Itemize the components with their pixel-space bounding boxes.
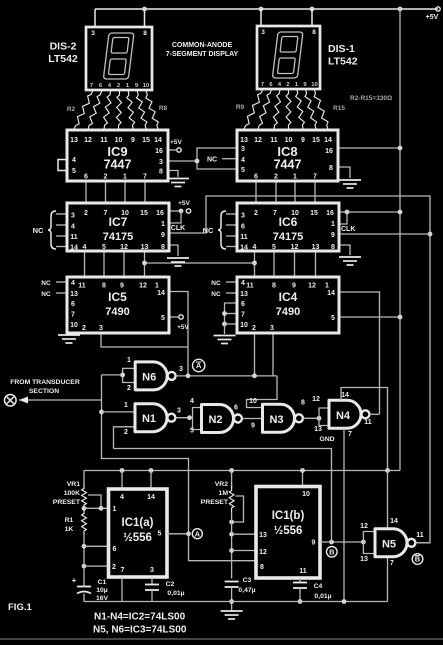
wire IC8 pin6 to IC6 pin2: [255, 181, 257, 203]
node: [229, 520, 234, 525]
svg-text:N4: N4: [336, 410, 351, 422]
svg-text:CLK: CLK: [341, 226, 355, 233]
wire N4 output: [369, 413, 379, 415]
svg-text:10: 10: [70, 322, 78, 329]
wire NC stub IC5 pin13: [56, 292, 67, 294]
svg-text:6: 6: [71, 301, 75, 308]
node: [298, 599, 303, 604]
wire DIS-1 pin8 to rail: [311, 9, 313, 26]
svg-text:FROM TRANSDUCER: FROM TRANSDUCER: [10, 379, 80, 386]
wire IC4 pins 6,7,10 tie: [225, 303, 238, 324]
svg-text:GND: GND: [319, 436, 334, 443]
svg-text:14: 14: [157, 290, 165, 297]
wire IC8 pin1 to IC6 pin10: [294, 181, 296, 203]
svg-text:NC: NC: [33, 226, 44, 235]
svg-text:C4: C4: [314, 583, 323, 590]
svg-text:13: 13: [70, 291, 78, 298]
NAND gate N4: [329, 400, 369, 428]
ground IC7: [167, 258, 189, 266]
IC1a pin4 riser: [121, 471, 123, 490]
svg-text:8: 8: [329, 165, 333, 172]
wire R1 to C1: [83, 535, 85, 586]
wire N5 pin7: [387, 557, 389, 602]
svg-text:14: 14: [341, 392, 349, 399]
svg-text:2: 2: [254, 210, 258, 217]
svg-text:11: 11: [70, 234, 78, 241]
svg-text:CLK: CLK: [171, 225, 185, 232]
svg-text:3: 3: [159, 159, 163, 166]
svg-text:2: 2: [274, 174, 278, 181]
wire IC6 pin4 to IC4 pin11: [254, 251, 256, 277]
node N1 pin1 tee: [99, 410, 104, 415]
wire NC stub IC5 pin4: [56, 281, 67, 283]
wire IC9 pin3 to IC8 bracket: [169, 160, 197, 162]
svg-text:14: 14: [390, 518, 398, 525]
circled B-bar: [412, 554, 423, 565]
wire IC4 pin14 from N4 output: [339, 292, 380, 414]
svg-text:14: 14: [324, 137, 332, 144]
wire IC5 pins 6,7,10 tie: [67, 303, 69, 324]
svg-text:7: 7: [121, 567, 125, 574]
NAND gate N5: [375, 529, 415, 557]
svg-text:8: 8: [301, 400, 305, 407]
wire IC7 pin4 to IC5 pin11: [84, 251, 86, 277]
brace IC6 NC: [218, 211, 226, 249]
svg-text:PRESET: PRESET: [201, 499, 229, 506]
svg-text:IC1(b): IC1(b): [272, 510, 305, 522]
svg-text:16: 16: [156, 210, 164, 217]
wire IC7 pin12 to IC5 pin9: [123, 251, 125, 277]
svg-text:13: 13: [240, 291, 248, 298]
node CLK at IC6 pin9: [428, 232, 433, 237]
svg-text:6: 6: [84, 174, 88, 181]
wire IC8 pin8 to ground: [338, 167, 350, 178]
svg-text:R2-R15=330Ω: R2-R15=330Ω: [350, 95, 392, 102]
wire IC1a pin5 output A: [167, 533, 189, 535]
svg-text:3: 3: [241, 146, 245, 153]
wire N6 output / A-bar net: [176, 375, 277, 377]
svg-text:N5, N6=IC3=74LS00: N5, N6=IC3=74LS00: [93, 625, 187, 636]
wire IC9 pin7 to IC7 pin15: [144, 181, 146, 203]
wire +5V bottom rail: [84, 470, 400, 472]
wire N5 input bracket: [363, 532, 375, 554]
svg-text:3: 3: [179, 366, 183, 373]
wire IC7 pin16 to pin1 jog: [169, 211, 181, 223]
svg-text:9: 9: [120, 283, 124, 290]
svg-text:LT542: LT542: [328, 56, 358, 68]
svg-text:1: 1: [325, 283, 329, 290]
svg-text:14: 14: [147, 494, 155, 501]
svg-text:C3: C3: [243, 577, 252, 584]
svg-text:C1: C1: [98, 579, 107, 586]
svg-text:5: 5: [72, 168, 76, 175]
wire: +5V bus down right side: [399, 9, 401, 471]
svg-text:4: 4: [71, 280, 75, 287]
node pin12: [229, 548, 234, 553]
svg-text:13: 13: [70, 137, 78, 144]
svg-text:IC5: IC5: [108, 290, 127, 304]
wire VR2 top: [231, 471, 233, 489]
svg-text:12: 12: [308, 283, 316, 290]
NAND gate N2: [202, 405, 242, 433]
wire IC9 pin1 to IC7 pin10: [124, 181, 126, 203]
wire IC7 pin8 to ground: [169, 245, 178, 256]
node IC5 feed: [186, 373, 191, 378]
wire C4 to ground rail: [299, 588, 301, 602]
capacitor C2: [145, 584, 159, 586]
svg-text:11: 11: [100, 137, 108, 144]
node N6 input: [120, 373, 125, 378]
svg-text:+5V: +5V: [170, 139, 182, 146]
wire IC6 pin5 to IC4 pin8: [273, 251, 275, 277]
node junction: [142, 261, 147, 266]
svg-text:COMMON-ANODE: COMMON-ANODE: [172, 42, 233, 49]
svg-text:IC1(a): IC1(a): [122, 517, 154, 529]
svg-text:3: 3: [71, 213, 75, 220]
svg-text:N5: N5: [382, 538, 396, 550]
wire IC1b pin9 output B: [320, 541, 363, 543]
svg-text:16: 16: [155, 148, 163, 155]
wire IC9 pin6 to IC7 pin2: [85, 181, 87, 203]
node: [186, 531, 191, 536]
svg-text:13: 13: [312, 244, 320, 251]
IC1(a) half 556: [109, 489, 168, 577]
svg-text:IC4: IC4: [279, 290, 298, 304]
svg-text:+5V: +5V: [426, 14, 439, 21]
resistor R2: [74, 91, 93, 130]
svg-text:8: 8: [161, 244, 165, 251]
wire C3 to ground: [231, 587, 233, 610]
wire IC6 pin16 to +5V bus: [339, 211, 400, 213]
svg-text:8: 8: [102, 283, 106, 290]
resistor R3: [88, 91, 102, 130]
svg-text:10: 10: [249, 398, 257, 405]
svg-text:NC: NC: [41, 291, 51, 298]
svg-text:13: 13: [141, 244, 149, 251]
ground IC5: [58, 335, 80, 343]
resistor R5: [116, 91, 121, 130]
resistor R7: [136, 91, 147, 130]
svg-text:3: 3: [150, 567, 154, 574]
svg-text:7: 7: [241, 312, 245, 319]
node pin13: [229, 532, 234, 537]
wire N2 out to N3: [242, 418, 263, 420]
svg-text:N3: N3: [269, 414, 283, 426]
+5V terminal IC5: [179, 315, 183, 319]
X input terminal: [5, 395, 17, 407]
svg-text:7: 7: [313, 174, 317, 181]
ground IC4: [214, 336, 236, 344]
svg-text:5: 5: [241, 167, 245, 174]
wire A-bar to N3 pin10: [247, 376, 278, 408]
wire IC7 pin16 to +5V: [169, 210, 181, 212]
svg-text:+5V: +5V: [177, 324, 189, 331]
svg-text:11: 11: [240, 234, 248, 241]
wire cross link QA row: [145, 262, 255, 264]
svg-text:2: 2: [252, 325, 256, 332]
svg-text:8: 8: [312, 29, 316, 36]
svg-text:C2: C2: [166, 581, 175, 588]
node: [222, 311, 227, 316]
svg-text:10: 10: [311, 82, 317, 88]
NAND gate N6: [135, 362, 175, 390]
svg-text:6: 6: [254, 174, 258, 181]
wire to IC1a pin6: [84, 545, 109, 547]
svg-text:74175: 74175: [273, 231, 304, 243]
wire VR1 wiper loop: [88, 495, 101, 508]
brace IC7 NC: [48, 211, 56, 249]
svg-text:16: 16: [325, 148, 333, 155]
svg-text:9: 9: [331, 232, 335, 239]
wire IC7 pin13 to IC5 pin12: [144, 251, 146, 277]
IC9 7447: [67, 130, 168, 181]
wire IC8 pin16 to +5V bus: [338, 147, 400, 149]
ground rail bottom: [84, 601, 388, 603]
svg-text:15: 15: [310, 210, 318, 217]
svg-text:4: 4: [72, 157, 76, 164]
svg-text:NC: NC: [211, 291, 221, 298]
svg-text:9: 9: [131, 137, 135, 144]
wire N1 out: [175, 417, 192, 419]
svg-text:15: 15: [312, 137, 320, 144]
wire IC5 pin14 feed: [169, 292, 188, 376]
svg-text:11: 11: [270, 137, 278, 144]
wire to N6 inputs: [102, 374, 123, 376]
svg-text:VR2: VR2: [215, 481, 228, 488]
svg-text:10: 10: [115, 137, 123, 144]
svg-text:6: 6: [234, 405, 238, 412]
svg-text:16: 16: [326, 210, 334, 217]
IC1(b) half 556: [256, 487, 320, 579]
svg-text:11: 11: [416, 532, 424, 539]
wire N5 output: [415, 542, 429, 544]
svg-text:7490: 7490: [105, 306, 129, 318]
svg-text:+5V: +5V: [178, 200, 190, 207]
wire N1 pin2 entry: [114, 427, 136, 449]
wire IC4 pin2 down: [254, 333, 256, 376]
resistor R8: [146, 91, 159, 130]
svg-text:R15: R15: [333, 105, 345, 112]
svg-text:7: 7: [71, 312, 75, 319]
svg-text:R2: R2: [67, 106, 76, 113]
wire tie to ground: [68, 324, 70, 334]
resistor R15: [314, 89, 328, 129]
svg-text:6: 6: [241, 224, 245, 231]
wire to IC1b pin12: [232, 550, 256, 552]
wire IC4 pin3 down: [272, 333, 274, 376]
wire DIS-2 pin8 to rail: [144, 9, 146, 27]
svg-text:N2: N2: [208, 414, 222, 426]
+5V terminal: [436, 7, 440, 11]
wire IC9 pins4-5 loop: [58, 160, 67, 171]
+5V terminal IC7: [186, 209, 190, 213]
svg-text:7490: 7490: [276, 306, 300, 318]
node N4 pin7 join: [342, 599, 347, 604]
wire rail end to VR1: [83, 471, 85, 485]
display DIS-2: [86, 27, 152, 90]
node pin2 tee: [82, 564, 87, 569]
svg-text:8: 8: [260, 564, 264, 571]
circled A: [192, 529, 202, 539]
svg-text:14: 14: [70, 245, 78, 252]
svg-text:15: 15: [142, 137, 150, 144]
svg-text:LT542: LT542: [48, 53, 78, 65]
svg-text:8: 8: [143, 30, 147, 37]
svg-text:5: 5: [272, 244, 276, 251]
node: [82, 506, 87, 511]
svg-text:3: 3: [91, 30, 95, 37]
wire C2 to ground rail: [151, 590, 153, 602]
svg-text:SECTION: SECTION: [29, 388, 59, 395]
wire NC stub IC4 pin4: [226, 281, 237, 283]
wire DIS-1 pin3 to rail: [260, 9, 262, 26]
svg-text:14: 14: [154, 137, 162, 144]
svg-text:10µ: 10µ: [96, 587, 108, 594]
svg-text:13: 13: [240, 137, 248, 144]
svg-text:7: 7: [273, 210, 277, 217]
ground IC8: [339, 180, 361, 188]
wire N4 pin14 to +5V rail: [341, 388, 388, 471]
svg-text:9: 9: [292, 283, 296, 290]
svg-text:FIG.1: FIG.1: [8, 602, 32, 613]
svg-text:NC: NC: [211, 280, 221, 287]
svg-text:12: 12: [312, 396, 320, 403]
svg-text:NC: NC: [207, 157, 217, 164]
display DIS-1: [257, 26, 320, 89]
svg-text:12: 12: [139, 283, 147, 290]
IC1a pin14 riser: [150, 471, 152, 490]
ground IC9: [167, 179, 189, 187]
svg-text:3: 3: [177, 408, 181, 415]
wire IC9 pin8 to ground: [169, 171, 178, 178]
svg-text:10: 10: [302, 491, 310, 498]
svg-text:7: 7: [90, 83, 93, 89]
svg-text:5: 5: [158, 531, 162, 538]
svg-text:1: 1: [331, 221, 335, 228]
svg-text:4: 4: [83, 244, 87, 251]
wire IC5 pin3 jog: [101, 333, 188, 347]
svg-text:2: 2: [127, 385, 131, 392]
svg-text:3: 3: [261, 29, 265, 36]
wire transducer input: [19, 399, 102, 401]
node: [187, 415, 192, 420]
wire N1 pin1: [102, 411, 136, 413]
resistor R14: [305, 89, 317, 129]
IC8 7447: [237, 130, 338, 181]
svg-text:IC6: IC6: [279, 215, 298, 229]
wire transducer riser: [102, 375, 189, 561]
svg-text:2: 2: [124, 429, 128, 436]
wire N4 input bracket: [319, 408, 329, 426]
svg-text:½556: ½556: [123, 532, 152, 544]
ground C3: [221, 611, 243, 619]
ground IC6: [339, 257, 361, 265]
svg-text:14: 14: [240, 245, 248, 252]
resistor R12: [286, 89, 291, 129]
svg-text:11: 11: [246, 283, 254, 290]
svg-text:NC: NC: [203, 226, 214, 235]
svg-text:DIS-2: DIS-2: [50, 41, 77, 53]
svg-text:R9: R9: [236, 104, 245, 111]
svg-text:5: 5: [331, 315, 335, 322]
node: [179, 209, 184, 214]
resistor R1: [82, 509, 87, 535]
svg-text:100K: 100K: [64, 490, 80, 497]
svg-text:9: 9: [161, 232, 165, 239]
svg-text:2: 2: [104, 174, 108, 181]
svg-text:3: 3: [241, 213, 245, 220]
circled B: [327, 547, 338, 558]
wire IC1a pin7 to ground: [121, 577, 123, 602]
IC7 74175: [67, 203, 169, 251]
wire IC6 pin13 to IC4 pin12: [315, 251, 317, 277]
svg-text:10: 10: [143, 83, 149, 89]
svg-text:5: 5: [190, 428, 194, 435]
svg-text:6: 6: [113, 546, 117, 553]
svg-text:2: 2: [84, 210, 88, 217]
node: rail junction dots: [142, 7, 147, 12]
svg-text:11: 11: [299, 568, 307, 575]
node: [398, 315, 403, 320]
svg-text:10: 10: [121, 210, 129, 217]
wire IC9 pin16 to +5V: [169, 149, 176, 151]
svg-text:R1: R1: [65, 517, 74, 524]
svg-text:1: 1: [124, 402, 128, 409]
svg-text:6: 6: [241, 301, 245, 308]
svg-text:14: 14: [327, 290, 335, 297]
svg-text:8: 8: [159, 169, 163, 176]
svg-text:N1: N1: [142, 413, 156, 425]
svg-text:B: B: [329, 548, 335, 557]
node IC4 pin2: [252, 373, 257, 378]
wire IC8 pin7 to IC6 pin15: [314, 181, 316, 203]
IC5 7490: [67, 277, 169, 333]
wire IC1a pin8 trigger (to IC1b pin8): [189, 560, 257, 562]
svg-text:7447: 7447: [274, 158, 302, 172]
node B: [329, 540, 334, 545]
svg-text:9: 9: [301, 137, 305, 144]
wire IC1a pin3 to C2: [151, 577, 153, 585]
svg-text:8: 8: [272, 283, 276, 290]
svg-text:10: 10: [285, 137, 293, 144]
IC6 74175: [237, 203, 339, 251]
wire to IC1b pin13: [232, 533, 256, 535]
svg-text:A: A: [195, 529, 201, 538]
resistor R6: [127, 91, 135, 130]
svg-text:7-SEGMENT DISPLAY: 7-SEGMENT DISPLAY: [166, 51, 239, 58]
svg-text:12: 12: [84, 137, 92, 144]
svg-text:4: 4: [253, 244, 257, 251]
wire IC5 pin5 to +5V: [169, 316, 178, 318]
bottom edge scan line: [0, 638, 443, 640]
svg-text:PRESET: PRESET: [53, 499, 81, 506]
wire DIS-2 pin3 to rail: [94, 9, 96, 27]
wire NC stubs IC6: [226, 213, 237, 215]
svg-text:1: 1: [161, 221, 165, 228]
svg-text:3: 3: [99, 325, 103, 332]
wire NC bracket IC8: [197, 148, 237, 169]
svg-text:4: 4: [190, 398, 194, 405]
capacitor C3: [225, 581, 239, 583]
node on rail: [229, 599, 234, 604]
resistor VR1: [82, 484, 87, 509]
svg-text:7: 7: [390, 560, 394, 567]
svg-text:9: 9: [251, 423, 255, 430]
svg-text:4: 4: [241, 280, 245, 287]
svg-text:7: 7: [143, 174, 147, 181]
svg-text:4: 4: [71, 224, 75, 231]
resistor R9: [244, 89, 263, 129]
